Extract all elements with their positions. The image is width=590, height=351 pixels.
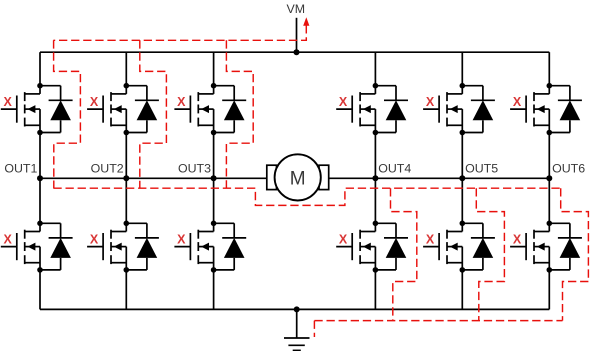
wire: column OUT4 high-side source to output rail	[374, 133, 376, 179]
Q4L body contact	[360, 246, 375, 248]
svg-text:OUT1: OUT1	[4, 161, 37, 175]
node OUT1 junction dot	[37, 175, 43, 181]
Q5H drain contact	[447, 93, 462, 95]
Q1L body contact	[25, 246, 40, 248]
Q5H diode cathode bar	[471, 99, 495, 101]
Q3H body contact	[198, 108, 213, 110]
Q4H source junction dot	[373, 130, 379, 136]
Q4L gate lead	[336, 246, 352, 248]
svg-text:X: X	[90, 233, 99, 247]
Q6L body contact	[534, 246, 549, 248]
Q6L drain junction dot	[547, 221, 553, 227]
Q5L channel bar	[446, 230, 448, 239]
wire: column OUT6 top-rail to high-side drain	[548, 52, 550, 85]
svg-text:X: X	[513, 233, 522, 247]
wire: column OUT4 low-side source to ground rail	[374, 270, 376, 310]
Q4L diode cathode bar	[384, 237, 408, 239]
Q6L source junction dot	[547, 267, 553, 273]
Q2L drain contact	[111, 231, 126, 233]
wire: column OUT4 top-rail to high-side drain	[374, 52, 376, 85]
wire: VM supply top rail	[40, 51, 549, 53]
Q6H gate lead	[510, 108, 526, 110]
Q3L diode anode triangle	[224, 238, 245, 258]
Q3H channel bar	[197, 92, 199, 101]
Q2H gate lead	[87, 108, 103, 110]
Q5H body diode wiring	[462, 86, 495, 133]
Q3L channel bar	[197, 230, 199, 239]
Q4L body diode wiring	[375, 223, 408, 270]
Q5L body contact	[447, 246, 462, 248]
Q1L body diode wiring	[40, 223, 73, 270]
Q4H gate plate	[351, 96, 353, 123]
Q1L diode anode triangle	[50, 238, 71, 258]
Q5L diode anode triangle	[473, 238, 494, 258]
svg-text:X: X	[339, 233, 348, 247]
Q4H body arrow	[363, 105, 371, 113]
svg-text:M: M	[290, 168, 306, 189]
Q3L body arrow	[201, 243, 209, 251]
Q6H drain junction dot	[547, 83, 553, 89]
Q3H diode anode triangle	[224, 100, 245, 120]
motor M left brush terminal	[267, 165, 277, 189]
wire: column OUT3 low-side source to ground rail	[213, 270, 215, 310]
Q2L drain junction dot	[124, 221, 130, 227]
Q1H gate lead	[1, 108, 17, 110]
wire: column OUT1 top-rail to high-side drain	[39, 52, 41, 85]
wire: column OUT5 output rail to low-side drain	[461, 178, 463, 223]
wire: column OUT3 high-side source to output rail	[213, 133, 215, 179]
node OUT2 junction dot	[123, 175, 129, 181]
Q4L channel bar	[359, 230, 361, 239]
Q2H body arrow	[114, 105, 122, 113]
Q2H diode cathode bar	[135, 99, 159, 101]
Q5L body arrow	[450, 243, 458, 251]
Q6L body arrow	[537, 243, 545, 251]
Q4L diode anode triangle	[386, 238, 407, 258]
Q3L body contact	[198, 246, 213, 248]
Q4H drain junction dot	[373, 83, 379, 89]
motor M body	[275, 154, 321, 200]
Q5H channel bar	[446, 92, 448, 101]
wire: column OUT5 high-side source to output rail	[461, 133, 463, 179]
Q5H gate plate	[438, 96, 440, 123]
ground symbol	[284, 338, 310, 350]
wire: column OUT2 output rail to low-side drain	[125, 178, 127, 223]
Q3L source junction dot	[211, 267, 217, 273]
Q3H source contact	[198, 124, 213, 126]
current path: loop through Q1H body diode	[54, 40, 81, 188]
Q2L body contact	[111, 246, 126, 248]
Q5H source junction dot	[460, 130, 466, 136]
svg-text:OUT2: OUT2	[91, 161, 124, 175]
Q1H diode anode triangle	[50, 100, 71, 120]
Q5H gate lead	[423, 108, 439, 110]
Q3H diode cathode bar	[222, 99, 246, 101]
transistor Q4L (NMOS half-bridge FET, low-side OUT4)	[336, 223, 375, 270]
Q5L source contact	[447, 262, 462, 264]
node OUT5 junction dot	[459, 175, 465, 181]
Q3L drain junction dot	[211, 221, 217, 227]
Q1H body contact	[25, 108, 40, 110]
Q1H source junction dot	[37, 130, 43, 136]
Q5H drain junction dot	[460, 83, 466, 89]
current path: loop through Q4L body diode	[391, 188, 417, 320]
Q1L body arrow	[28, 243, 36, 251]
Q1H drain junction dot	[37, 83, 43, 89]
wire: column OUT1 high-side source to output rail	[39, 133, 41, 179]
Q3H gate plate	[189, 96, 191, 123]
transistor Q5L (NMOS half-bridge FET, low-side OUT5)	[423, 223, 462, 270]
net VM supply lead	[296, 18, 298, 52]
Q6H diode cathode bar	[558, 99, 582, 101]
svg-text:X: X	[426, 95, 435, 109]
Q2H drain junction dot	[124, 83, 130, 89]
Q4L drain junction dot	[373, 221, 379, 227]
Q2H source junction dot	[124, 130, 130, 136]
svg-text:OUT5: OUT5	[465, 161, 498, 175]
Q2H gate plate	[102, 96, 104, 123]
Q6H body arrow	[537, 105, 545, 113]
svg-text:X: X	[4, 95, 13, 109]
Q6L source contact	[534, 262, 549, 264]
wire: column OUT2 high-side source to output rail	[125, 133, 127, 179]
svg-text:X: X	[177, 95, 186, 109]
Q6L diode cathode bar	[558, 237, 582, 239]
transistor Q2L (NMOS half-bridge FET, low-side OUT2)	[87, 223, 126, 270]
Q6L gate plate	[525, 233, 527, 260]
Q2H source contact	[111, 124, 126, 126]
svg-text:OUT6: OUT6	[552, 161, 585, 175]
Q5H body contact	[447, 108, 462, 110]
wire: column OUT1 output rail to low-side drain	[39, 178, 41, 223]
Q1L source junction dot	[37, 267, 43, 273]
Q4H channel bar	[359, 92, 361, 101]
Q6L drain contact	[534, 231, 549, 233]
svg-text:X: X	[90, 95, 99, 109]
Q1L gate plate	[16, 233, 18, 260]
node OUT4 junction dot	[372, 175, 378, 181]
Q1H gate plate	[16, 96, 18, 123]
Q1H body diode wiring	[40, 86, 73, 133]
node OUT3 junction dot	[211, 175, 217, 181]
Q3L body diode wiring	[214, 223, 247, 270]
Q6L diode anode triangle	[560, 238, 581, 258]
Q5L diode cathode bar	[471, 237, 495, 239]
Q3H source junction dot	[211, 130, 217, 136]
Q5L drain contact	[447, 231, 462, 233]
Q2L source junction dot	[124, 267, 130, 273]
Q6H body contact	[534, 108, 549, 110]
Q1L drain contact	[25, 231, 40, 233]
Q2H channel bar	[110, 92, 112, 101]
current path: loop through Q3H body diode	[226, 40, 253, 188]
Q5H body arrow	[450, 105, 458, 113]
Q1H body arrow	[28, 105, 36, 113]
wire: column OUT5 top-rail to high-side drain	[461, 52, 463, 85]
Q2L source contact	[111, 262, 126, 264]
Q5L body diode wiring	[462, 223, 495, 270]
Q4H diode cathode bar	[384, 99, 408, 101]
current path: loop through Q2H body diode	[140, 40, 167, 188]
current path: bottom red rail from ground to low-side FETs 4-6	[314, 320, 562, 322]
svg-text:X: X	[177, 233, 186, 247]
Q6H drain contact	[534, 93, 549, 95]
Q2L channel bar	[110, 230, 112, 239]
Q5H source contact	[447, 124, 462, 126]
node VM junction dot on top rail	[294, 49, 300, 55]
transistor Q6L (NMOS half-bridge FET, low-side OUT6)	[510, 223, 549, 270]
current path: mid red rail under output row and motor	[53, 188, 560, 205]
node OUT6 junction dot	[546, 175, 552, 181]
Q3L diode cathode bar	[222, 237, 246, 239]
Q6H gate plate	[525, 96, 527, 123]
Q2L body arrow	[114, 243, 122, 251]
wire: column OUT1 low-side source to ground rail	[39, 270, 41, 310]
Q4H source contact	[360, 124, 375, 126]
transistor Q1H (NMOS half-bridge FET, high-side OUT1)	[1, 86, 40, 133]
svg-text:VM: VM	[287, 2, 306, 16]
Q3H body arrow	[201, 105, 209, 113]
Q2L diode anode triangle	[137, 238, 158, 258]
Q1L source contact	[25, 262, 40, 264]
Q4L source contact	[360, 262, 375, 264]
Q6L channel bar	[533, 230, 535, 239]
Q6H source junction dot	[547, 130, 553, 136]
wire: column OUT3 top-rail to high-side drain	[213, 52, 215, 85]
current path: loop through Q5L body diode	[476, 188, 504, 320]
transistor Q3L (NMOS half-bridge FET, low-side OUT3)	[174, 223, 213, 270]
Q6L body diode wiring	[549, 223, 582, 270]
Q2L gate lead	[87, 246, 103, 248]
Q2L body diode wiring	[126, 223, 159, 270]
Q2H drain contact	[111, 93, 126, 95]
Q6H diode anode triangle	[560, 100, 581, 120]
Q4H body contact	[360, 108, 375, 110]
Q1L diode cathode bar	[49, 237, 73, 239]
Q4L drain contact	[360, 231, 375, 233]
wire: bottom ground rail	[40, 308, 549, 310]
Q2L diode cathode bar	[135, 237, 159, 239]
transistor Q4H (NMOS half-bridge FET, high-side OUT4)	[336, 86, 375, 133]
node ground junction dot on bottom rail	[294, 306, 300, 312]
Q6H channel bar	[533, 92, 535, 101]
wire: column OUT4 output rail to low-side drain	[374, 178, 376, 223]
wire: column OUT2 low-side source to ground rail	[125, 270, 127, 310]
wire: output rail left (OUT1-OUT3 to motor)	[40, 177, 267, 179]
Q4H body diode wiring	[375, 86, 408, 133]
Q2H body diode wiring	[126, 86, 159, 133]
current path: top red rail from VM arrow across high-side FETs 1-3	[53, 25, 306, 40]
Q5L gate plate	[438, 233, 440, 260]
Q3H drain contact	[198, 93, 213, 95]
wire: column OUT3 output rail to low-side drain	[213, 178, 215, 223]
transistor Q5H (NMOS half-bridge FET, high-side OUT5)	[423, 86, 462, 133]
Q1H drain contact	[25, 93, 40, 95]
current path: red stub down to ground symbol	[313, 321, 315, 337]
Q5L drain junction dot	[460, 221, 466, 227]
Q4H drain contact	[360, 93, 375, 95]
Q6L gate lead	[510, 246, 526, 248]
Q3H body diode wiring	[214, 86, 247, 133]
Q1H diode cathode bar	[49, 99, 73, 101]
transistor Q6H (NMOS half-bridge FET, high-side OUT6)	[510, 86, 549, 133]
wire: ground lead	[296, 309, 298, 338]
Q4L gate plate	[351, 233, 353, 260]
Q1H source contact	[25, 124, 40, 126]
svg-text:OUT4: OUT4	[378, 161, 411, 175]
wire: column OUT5 low-side source to ground rail	[461, 270, 463, 310]
transistor Q3H (NMOS half-bridge FET, high-side OUT3)	[174, 86, 213, 133]
Q6H source contact	[534, 124, 549, 126]
Q3L drain contact	[198, 231, 213, 233]
current path: arrowhead into VM	[303, 17, 309, 26]
Q4H gate lead	[336, 108, 352, 110]
svg-text:X: X	[339, 95, 348, 109]
Q1L gate lead	[1, 246, 17, 248]
Q1L drain junction dot	[37, 221, 43, 227]
wire: column OUT6 low-side source to ground rail	[548, 270, 550, 310]
Q2H body contact	[111, 108, 126, 110]
svg-text:X: X	[513, 95, 522, 109]
svg-text:OUT3: OUT3	[178, 161, 211, 175]
Q4L body arrow	[363, 243, 371, 251]
Q5H diode anode triangle	[473, 100, 494, 120]
Q3H drain junction dot	[211, 83, 217, 89]
transistor Q1L (NMOS half-bridge FET, low-side OUT1)	[1, 223, 40, 270]
wire: column OUT6 high-side source to output rail	[548, 133, 550, 179]
Q3H gate lead	[174, 108, 190, 110]
Q6H body diode wiring	[549, 86, 582, 133]
Q1H channel bar	[24, 92, 26, 101]
wire: output rail right (motor to OUT4-OUT6)	[329, 177, 550, 179]
Q4L source junction dot	[373, 267, 379, 273]
Q2H diode anode triangle	[137, 100, 158, 120]
Q3L gate lead	[174, 246, 190, 248]
motor M right brush terminal	[319, 165, 329, 189]
current path: loop through Q6L body diode	[561, 188, 589, 320]
Q5L gate lead	[423, 246, 439, 248]
wire: column OUT2 top-rail to high-side drain	[125, 52, 127, 85]
Q2L gate plate	[102, 233, 104, 260]
Q5L source junction dot	[460, 267, 466, 273]
Q1L channel bar	[24, 230, 26, 239]
Q4H diode anode triangle	[386, 100, 407, 120]
transistor Q2H (NMOS half-bridge FET, high-side OUT2)	[87, 86, 126, 133]
Q3L source contact	[198, 262, 213, 264]
svg-text:X: X	[4, 233, 13, 247]
svg-text:X: X	[426, 233, 435, 247]
wire: column OUT6 output rail to low-side drain	[548, 178, 550, 223]
Q3L gate plate	[189, 233, 191, 260]
